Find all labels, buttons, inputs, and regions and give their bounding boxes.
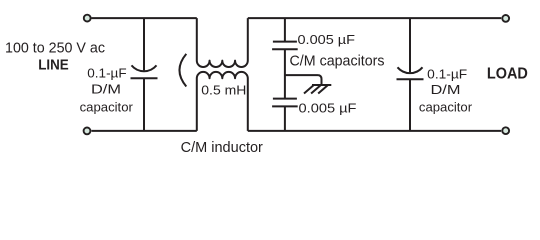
ground hatch 2 (311, 85, 321, 94)
svg-text:LOAD: LOAD (487, 66, 528, 83)
inductor L1 common-mode, bottom winding (197, 72, 248, 131)
capacitor C1 bottom lead (143, 78, 145, 131)
inductor L1 core arc (179, 54, 186, 87)
svg-text:D/M: D/M (91, 82, 121, 97)
svg-text:0.1-µF: 0.1-µF (87, 65, 126, 80)
ground hatch 3 (318, 85, 328, 94)
svg-text:capacitor: capacitor (80, 99, 134, 114)
terminal top-right (502, 15, 509, 22)
terminal bottom-right (502, 127, 509, 134)
svg-text:capacitor: capacitor (419, 99, 473, 114)
wire middle branch bottom lead (284, 106, 286, 130)
svg-text:C/M capacitors: C/M capacitors (290, 52, 385, 69)
capacitor C2 plate 2 (272, 48, 298, 50)
terminal top-left (84, 15, 91, 22)
capacitor C4 curved plate (398, 67, 423, 73)
terminal bottom-left (84, 127, 91, 134)
wire between C/M capacitors (284, 49, 286, 98)
capacitor C4 bottom lead (409, 79, 411, 131)
svg-text:100 to 250 V ac: 100 to 250 V ac (5, 40, 105, 57)
capacitor C1 curved plate (132, 65, 157, 71)
svg-text:D/M: D/M (431, 82, 461, 97)
capacitor C4 0.1-µF D/M (load side) top lead (409, 18, 411, 72)
svg-text:LINE: LINE (38, 57, 69, 73)
capacitor C4 flat plate (397, 78, 424, 80)
svg-text:0.1-µF: 0.1-µF (427, 66, 467, 81)
capacitor C3 plate 2 (272, 105, 298, 107)
wire bottom-left segment (92, 130, 197, 132)
ground (chassis) bar (312, 84, 331, 86)
inductor L1 common-mode, top winding (197, 18, 248, 67)
wire middle branch top lead (284, 18, 286, 41)
svg-text:C/M inductor: C/M inductor (181, 139, 263, 156)
wire bottom-right segment (248, 130, 501, 132)
svg-text:0.005 µF: 0.005 µF (298, 32, 356, 47)
ground hatch 1 (304, 85, 314, 94)
capacitor C1 flat plate (131, 77, 158, 79)
capacitor C1 0.1-µF D/M (line side) top lead (143, 18, 145, 70)
svg-text:0.5 mH: 0.5 mH (201, 82, 246, 97)
svg-text:0.005 µF: 0.005 µF (299, 101, 357, 116)
wire top-left segment (92, 17, 197, 19)
wire top-right segment (248, 17, 501, 19)
capacitor C3 0.005 µF (C/M, lower) plate 1 (273, 98, 297, 100)
wire ground tap (285, 75, 322, 85)
capacitor C2 0.005 µF (C/M, upper) plate 1 (273, 41, 297, 43)
